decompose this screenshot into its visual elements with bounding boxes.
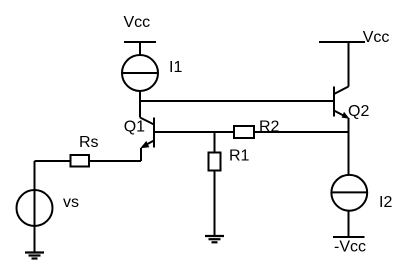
svg-text:-Vcc: -Vcc (334, 238, 366, 255)
svg-text:Q2: Q2 (348, 103, 369, 120)
svg-text:Q1: Q1 (124, 118, 145, 135)
svg-text:Vcc: Vcc (124, 14, 151, 31)
svg-text:vs: vs (63, 194, 79, 211)
svg-text:Rs: Rs (79, 134, 99, 151)
svg-text:I2: I2 (379, 194, 392, 211)
svg-text:R1: R1 (229, 148, 250, 165)
svg-text:R2: R2 (259, 119, 280, 136)
svg-text:Vcc: Vcc (363, 29, 390, 46)
svg-text:I1: I1 (169, 59, 182, 76)
